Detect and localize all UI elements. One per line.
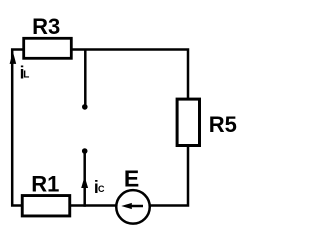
svg-text:E: E <box>124 166 139 192</box>
svg-text:iC: iC <box>94 177 105 197</box>
svg-text:R5: R5 <box>209 112 237 137</box>
svg-text:R3: R3 <box>32 14 60 39</box>
svg-text:iL: iL <box>20 62 30 82</box>
svg-text:R1: R1 <box>31 172 59 197</box>
